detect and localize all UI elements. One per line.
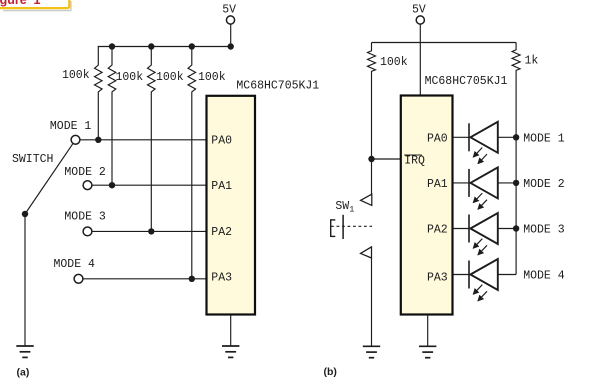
svg-text:SWITCH: SWITCH xyxy=(12,153,53,166)
svg-text:MC68HC705KJ1: MC68HC705KJ1 xyxy=(236,80,319,93)
svg-text:(a): (a) xyxy=(17,366,30,378)
wire MODE3 row to PA2 (a) xyxy=(88,230,207,232)
resistor 100k (b) xyxy=(368,43,408,195)
node MODE 4 contact (a) xyxy=(54,258,96,283)
resistor 100k #1 (a) xyxy=(62,47,102,140)
svg-text:PA1: PA1 xyxy=(427,178,448,191)
svg-text:100k: 100k xyxy=(380,56,408,69)
junction LED1/1k line, node MODE 1 (b) xyxy=(513,132,565,145)
wire IC (b) to ground xyxy=(427,315,429,347)
IC U2 MC68HC705KJ1 (b) xyxy=(401,75,508,314)
wire SW1 to ground (b) xyxy=(371,258,373,346)
junction R4/MODE4 row xyxy=(189,276,195,282)
LED D2 (b) xyxy=(453,167,516,209)
svg-text:MODE 1: MODE 1 xyxy=(523,132,565,145)
resistor 100k #4 (a) xyxy=(188,47,226,279)
wire MODE4 row to PA3 (a) xyxy=(79,278,207,280)
5V supply terminal (a) xyxy=(222,4,236,24)
svg-text:1: 1 xyxy=(34,0,41,7)
svg-text:PA1: PA1 xyxy=(211,180,232,193)
junction 5V/bus (a) xyxy=(228,43,234,49)
junction 100k/IRQ (b) xyxy=(368,156,374,162)
svg-text:MODE 3: MODE 3 xyxy=(523,224,565,237)
svg-text:1k: 1k xyxy=(525,55,539,68)
svg-text:PA0: PA0 xyxy=(427,133,448,146)
svg-text:100k: 100k xyxy=(116,71,144,84)
LED D4 (b) xyxy=(453,259,516,301)
svg-text:MODE 2: MODE 2 xyxy=(64,166,106,179)
LED D3 (b) xyxy=(453,213,516,255)
svg-text:PA2: PA2 xyxy=(211,226,232,239)
wire MODE2 row to PA1 (a) xyxy=(88,184,207,186)
svg-text:PA2: PA2 xyxy=(427,224,448,237)
svg-text:MODE 1: MODE 1 xyxy=(50,120,92,133)
switch pole junction (a) xyxy=(22,211,28,217)
svg-text:5V: 5V xyxy=(222,4,236,17)
wire switch pole to ground (a) xyxy=(24,214,26,346)
junction bus/R2 (a) xyxy=(109,43,115,49)
node MODE 3 contact (a) xyxy=(64,211,106,236)
wire 5V terminal to bus (a) xyxy=(230,24,232,46)
svg-text:100k: 100k xyxy=(198,71,226,84)
svg-text:PA0: PA0 xyxy=(211,134,232,147)
5V supply terminal (b) xyxy=(412,4,426,24)
resistor 1k (b) xyxy=(512,43,538,275)
wire IRQ row (b) xyxy=(372,158,401,160)
wire MODE1 row to PA0 (a) xyxy=(76,139,207,141)
junction bus/R4 (a) xyxy=(189,43,195,49)
svg-text:MODE 3: MODE 3 xyxy=(64,211,106,224)
ground symbol under IC (a) xyxy=(222,346,239,357)
wire 5V terminal down to IC (b) xyxy=(419,24,421,95)
switch SW1 pushbutton (b) xyxy=(331,194,372,258)
svg-text:Figure: Figure xyxy=(0,0,27,7)
node MODE 2 contact (a) xyxy=(64,166,106,189)
svg-text:MODE 4: MODE 4 xyxy=(54,258,96,271)
pin IRQ with overline (b) xyxy=(404,155,425,168)
resistor 100k #2 (a) xyxy=(108,47,143,186)
IC U1 MC68HC705KJ1 (a) xyxy=(207,80,320,315)
junction R2/MODE2 row xyxy=(109,182,115,188)
svg-text:5V: 5V xyxy=(412,4,426,17)
svg-text:(b): (b) xyxy=(324,366,337,378)
svg-text:SW1: SW1 xyxy=(335,200,354,215)
ground symbol under switch (a) xyxy=(16,346,33,357)
svg-text:PA3: PA3 xyxy=(211,272,232,285)
svg-text:MODE 4: MODE 4 xyxy=(523,270,565,283)
junction R1/MODE1 row xyxy=(95,137,101,143)
wire IC (a) to ground xyxy=(230,315,232,346)
junction R3/MODE3 row xyxy=(148,228,154,234)
switch rotary arm (a) xyxy=(25,144,73,214)
resistor 100k #3 (a) xyxy=(148,47,184,232)
svg-text:100k: 100k xyxy=(62,69,90,82)
svg-text:100k: 100k xyxy=(156,71,184,84)
svg-text:PA3: PA3 xyxy=(427,272,448,285)
junction LED3/1k line, node MODE 3 (b) xyxy=(513,224,565,237)
svg-text:MC68HC705KJ1: MC68HC705KJ1 xyxy=(425,75,508,88)
node MODE 1 contact (a) xyxy=(50,120,92,144)
junction LED2/1k line, node MODE 2 (b) xyxy=(513,178,565,191)
LED D1 (b) xyxy=(453,122,516,164)
ground symbol under SW1 (b) xyxy=(363,346,380,357)
wire supply bus (b) xyxy=(372,42,517,44)
svg-text:IRQ: IRQ xyxy=(404,155,425,168)
svg-text:MODE 2: MODE 2 xyxy=(523,178,565,191)
junction bus/R3 (a) xyxy=(148,43,154,49)
figure label box "Figure 1" (cut off at top edge) xyxy=(0,0,72,11)
wire supply bus (a) xyxy=(98,46,231,48)
ground symbol under IC (b) xyxy=(419,346,436,357)
